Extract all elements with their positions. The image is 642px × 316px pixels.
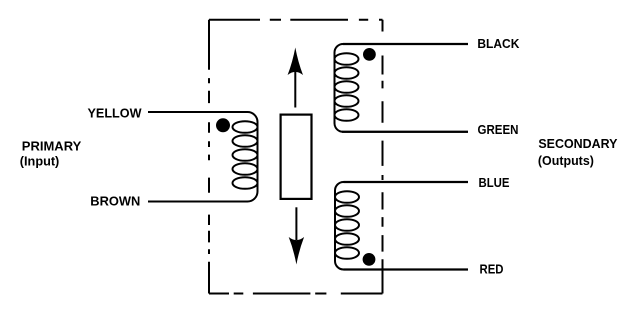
svg-text:YELLOW: YELLOW <box>88 106 142 120</box>
svg-text:BROWN: BROWN <box>90 194 140 208</box>
svg-text:GREEN: GREEN <box>478 123 519 137</box>
svg-text:BLUE: BLUE <box>479 176 510 190</box>
svg-text:PRIMARY: PRIMARY <box>22 139 82 153</box>
svg-text:(Outputs): (Outputs) <box>538 154 594 168</box>
svg-text:BLACK: BLACK <box>477 37 519 51</box>
svg-text:RED: RED <box>480 263 504 277</box>
svg-text:SECONDARY: SECONDARY <box>538 137 618 151</box>
svg-text:(Input): (Input) <box>20 155 60 169</box>
